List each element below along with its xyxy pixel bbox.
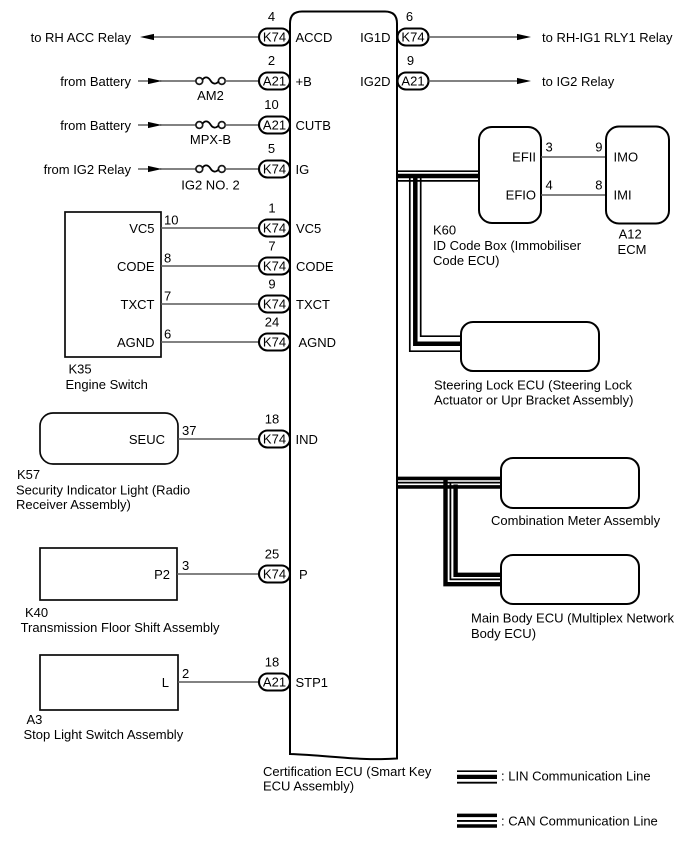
svg-text:Actuator or Upr Bracket Assemb: Actuator or Upr Bracket Assembly) <box>434 393 633 408</box>
wire fuse AM2 to Certification ECU <box>225 80 259 82</box>
label K40 Transmission Floor Shift Assembly caption <box>21 605 220 635</box>
svg-text:A21: A21 <box>263 74 286 89</box>
svg-text:ACCD: ACCD <box>296 30 333 45</box>
label STP1 <box>296 675 329 690</box>
svg-text:25: 25 <box>265 547 279 562</box>
transmission floor shift K40 box <box>40 548 177 600</box>
CAN bus branch to Main Body ECU (outer thick line) <box>446 480 502 585</box>
label K57 Security Indicator Light caption <box>16 467 190 512</box>
svg-text:CUTB: CUTB <box>296 118 331 133</box>
pin 10 (K35 VC5) <box>164 213 178 228</box>
LIN bus branch to Steering Lock ECU (thick line) <box>415 176 461 344</box>
svg-text:7: 7 <box>164 289 171 304</box>
label CAN Communication Line legend <box>501 814 658 829</box>
svg-text:ID Code Box (Immobiliser: ID Code Box (Immobiliser <box>433 238 582 253</box>
pin 8 (K35 CODE) <box>164 251 171 266</box>
svg-text:7: 7 <box>268 239 275 254</box>
svg-text:MPX-B: MPX-B <box>190 132 231 147</box>
svg-text:IG: IG <box>296 162 310 177</box>
LIN bus Certification ECU to K60 (thick line) <box>396 174 479 179</box>
svg-text:Steering Lock ECU (Steering Lo: Steering Lock ECU (Steering Lock <box>434 378 632 393</box>
svg-text:Code ECU): Code ECU) <box>433 253 499 268</box>
connector K74 pin 24 (AGND) <box>259 315 290 351</box>
svg-text:K74: K74 <box>401 30 424 45</box>
svg-text:IMO: IMO <box>614 150 639 165</box>
svg-text:AGND: AGND <box>299 335 337 350</box>
arrow from from Battery (right) <box>148 78 162 84</box>
label Steering Lock ECU caption <box>434 378 633 408</box>
wire from from Battery to fuse MPX-B <box>138 124 196 126</box>
connector K74 pin 18 (IND) <box>259 412 290 448</box>
label to RH-IG1 RLY1 Relay <box>542 30 673 45</box>
label TXCT <box>296 297 330 312</box>
CAN bus branch to Main Body ECU (inner thick line) <box>456 485 501 575</box>
svg-text:EFIO: EFIO <box>506 188 536 203</box>
svg-text:8: 8 <box>595 178 602 193</box>
connector K74 pin 4 (ACCD) <box>259 9 290 46</box>
label Combination Meter Assembly caption <box>491 513 661 528</box>
svg-text:VC5: VC5 <box>296 221 321 236</box>
combination meter assembly box <box>501 458 639 508</box>
wire K35 TXCT to Certification ECU TXCT <box>161 303 259 305</box>
label from Battery <box>60 118 131 133</box>
CAN bus branch to Main Body ECU (middle thin line) <box>450 483 501 580</box>
connector K74 pin 5 (IG) <box>259 141 290 178</box>
svg-text:18: 18 <box>265 655 279 670</box>
arrow to RH ACC Relay (left) <box>140 34 154 40</box>
label from IG2 Relay <box>44 162 132 177</box>
svg-text:K57: K57 <box>17 467 40 482</box>
pin 3 (K60 EFII) <box>546 140 553 155</box>
CAN bus Certification ECU to Combination Meter (middle thin line) <box>396 482 501 484</box>
label AGND <box>299 335 337 350</box>
wire from from Battery to fuse AM2 <box>138 80 196 82</box>
svg-text:IG2 NO. 2: IG2 NO. 2 <box>181 178 240 193</box>
label IND <box>296 432 318 447</box>
label A3 Stop Light Switch Assembly caption <box>24 712 184 742</box>
svg-text:K35: K35 <box>69 362 92 377</box>
svg-text:P2: P2 <box>154 567 170 582</box>
svg-text:CODE: CODE <box>117 259 155 274</box>
wire K35 AGND to Certification ECU AGND <box>161 341 259 343</box>
CAN bus Certification ECU to Combination Meter (top thick line) <box>396 477 501 481</box>
arrow from from IG2 Relay (right) <box>148 166 162 172</box>
connector A21 pin 9 (IG2D) <box>398 53 429 90</box>
wire fuse IG2 NO. 2 to Certification ECU <box>225 168 259 170</box>
svg-text:Combination Meter Assembly: Combination Meter Assembly <box>491 513 661 528</box>
wire K35 CODE to Certification ECU CODE <box>161 265 259 267</box>
svg-text:to RH ACC Relay: to RH ACC Relay <box>31 30 132 45</box>
label P <box>299 567 308 582</box>
connector K74 pin 1 (VC5) <box>259 201 290 237</box>
svg-text:AM2: AM2 <box>197 88 224 103</box>
svg-text:K74: K74 <box>263 259 286 274</box>
svg-text:4: 4 <box>268 9 275 24</box>
legend CAN communication line symbol <box>457 815 497 826</box>
svg-text:to RH-IG1 RLY1 Relay: to RH-IG1 RLY1 Relay <box>542 30 673 45</box>
svg-text:37: 37 <box>182 423 196 438</box>
main body ECU box <box>501 555 639 604</box>
label CODE (K35 internal) <box>117 259 155 274</box>
svg-text:K74: K74 <box>263 297 286 312</box>
label to IG2 Relay <box>542 74 615 89</box>
svg-text:K74: K74 <box>263 30 286 45</box>
svg-text:K60: K60 <box>433 223 456 238</box>
svg-text:A21: A21 <box>263 675 286 690</box>
wire fuse MPX-B to Certification ECU <box>225 124 259 126</box>
CAN bus Certification ECU to Combination Meter (bottom thick line) <box>396 485 501 489</box>
svg-text:ECU Assembly): ECU Assembly) <box>263 779 354 794</box>
fuse AM2 <box>196 77 225 103</box>
pin 3 (K40 P2) <box>182 558 189 573</box>
svg-text:2: 2 <box>182 666 189 681</box>
legend LIN communication line symbol <box>457 771 497 783</box>
svg-text:24: 24 <box>265 315 279 330</box>
label IG1D <box>360 30 390 45</box>
svg-text:EFII: EFII <box>512 150 536 165</box>
svg-text:+B: +B <box>296 74 312 89</box>
label to RH ACC Relay <box>31 30 132 45</box>
svg-text:K74: K74 <box>263 162 286 177</box>
svg-text:IG1D: IG1D <box>360 30 390 45</box>
fuse IG2 NO. 2 <box>181 165 240 192</box>
label K60 ID Code Box caption <box>433 223 582 269</box>
wire ACCD to RH ACC Relay <box>151 36 259 38</box>
label +B <box>296 74 312 89</box>
wire K60 EFIO to A12 IMI <box>541 194 606 196</box>
svg-text:3: 3 <box>546 140 553 155</box>
svg-text:Security Indicator Light (Radi: Security Indicator Light (Radio <box>16 483 190 498</box>
LIN bus Certification ECU to K60 (thin line bottom) <box>396 180 479 182</box>
LIN bus branch to Steering Lock ECU (outer thin line) <box>410 175 461 351</box>
pin 37 (K57 SEUC) <box>182 423 196 438</box>
Certification ECU box (Smart Key ECU Assembly) <box>290 12 397 760</box>
svg-text:K74: K74 <box>263 335 286 350</box>
svg-text:IG2D: IG2D <box>360 74 390 89</box>
svg-text:Engine Switch: Engine Switch <box>66 377 148 392</box>
svg-text:CODE: CODE <box>296 259 334 274</box>
ECM A12 box <box>606 127 669 224</box>
svg-text:K74: K74 <box>263 221 286 236</box>
wire A3 L to Certification ECU STP1 <box>178 681 259 683</box>
label VC5 <box>296 221 321 236</box>
connector K74 pin 25 (P) <box>259 547 290 583</box>
label K35 Engine Switch caption <box>66 362 148 393</box>
svg-text:from IG2 Relay: from IG2 Relay <box>44 162 132 177</box>
ID code box K60 <box>479 127 541 223</box>
connector K74 pin 9 (TXCT) <box>259 277 290 313</box>
svg-text:8: 8 <box>164 251 171 266</box>
svg-text:4: 4 <box>546 178 553 193</box>
svg-text:P: P <box>299 567 308 582</box>
arrow to IG2 Relay (right) <box>517 78 531 84</box>
engine switch K35 box <box>65 212 161 357</box>
svg-text:K74: K74 <box>263 567 286 582</box>
label AGND (K35 internal) <box>117 335 155 350</box>
svg-text:6: 6 <box>164 327 171 342</box>
pin 9 (A12 IMO) <box>595 140 602 155</box>
label from Battery <box>60 74 131 89</box>
pin 7 (K35 TXCT) <box>164 289 171 304</box>
svg-text:18: 18 <box>265 412 279 427</box>
svg-text:Certification ECU (Smart Key: Certification ECU (Smart Key <box>263 764 432 779</box>
svg-text:9: 9 <box>407 53 414 68</box>
svg-text:VC5: VC5 <box>129 221 154 236</box>
svg-text:2: 2 <box>268 53 275 68</box>
wire IG2D to IG2 Relay <box>429 80 519 82</box>
svg-text:from Battery: from Battery <box>60 74 131 89</box>
svg-text:TXCT: TXCT <box>121 297 155 312</box>
svg-text:6: 6 <box>406 9 413 24</box>
label CODE <box>296 259 334 274</box>
svg-text:from Battery: from Battery <box>60 118 131 133</box>
svg-text:A21: A21 <box>263 118 286 133</box>
svg-text:10: 10 <box>164 213 178 228</box>
svg-text:K40: K40 <box>25 605 48 620</box>
svg-text:9: 9 <box>595 140 602 155</box>
svg-text:TXCT: TXCT <box>296 297 330 312</box>
svg-text:3: 3 <box>182 558 189 573</box>
svg-text:to IG2 Relay: to IG2 Relay <box>542 74 615 89</box>
pin 4 (K60 EFIO) <box>546 178 553 193</box>
label EFII (K60 internal) <box>512 150 536 165</box>
pin 2 (A3 L) <box>182 666 189 681</box>
connector K74 pin 7 (CODE) <box>259 239 290 275</box>
label Certification ECU caption <box>263 764 432 794</box>
wire IG1D to RH-IG1 RLY1 Relay <box>429 36 519 38</box>
svg-text:5: 5 <box>268 141 275 156</box>
svg-text:: CAN Communication Line: : CAN Communication Line <box>501 814 658 829</box>
label IG <box>296 162 310 177</box>
wire from from IG2 Relay to fuse IG2 NO. 2 <box>138 168 196 170</box>
svg-text:Receiver Assembly): Receiver Assembly) <box>16 497 131 512</box>
connector A21 pin 2 (+B) <box>259 53 290 90</box>
label TXCT (K35 internal) <box>121 297 155 312</box>
svg-text:Transmission Floor Shift Assem: Transmission Floor Shift Assembly <box>21 620 220 635</box>
arrow from from Battery (right) <box>148 122 162 128</box>
svg-text:A3: A3 <box>27 712 43 727</box>
label IG2D <box>360 74 390 89</box>
wire K35 VC5 to Certification ECU VC5 <box>161 227 259 229</box>
svg-text:9: 9 <box>268 277 275 292</box>
svg-text:L: L <box>162 675 169 690</box>
svg-text:K74: K74 <box>263 432 286 447</box>
LIN bus branch to Steering Lock ECU (inner thin line) <box>421 177 461 336</box>
label LIN Communication Line legend <box>501 769 651 784</box>
svg-text:1: 1 <box>268 201 275 216</box>
connector A21 pin 18 (STP1) <box>259 655 290 691</box>
label Main Body ECU caption <box>471 611 675 641</box>
svg-text:: LIN Communication Line: : LIN Communication Line <box>501 769 651 784</box>
label ACCD <box>296 30 333 45</box>
svg-text:IND: IND <box>296 432 318 447</box>
wire K57 SEUC to Certification ECU IND <box>178 438 259 440</box>
label L (A3 internal) <box>162 675 169 690</box>
label A12 ECM caption <box>618 226 647 257</box>
steering lock ECU box <box>461 322 599 371</box>
svg-text:A12: A12 <box>619 226 642 241</box>
pin 6 (K35 AGND) <box>164 327 171 342</box>
label EFIO (K60 internal) <box>506 188 536 203</box>
svg-text:10: 10 <box>264 97 278 112</box>
svg-text:SEUC: SEUC <box>129 432 165 447</box>
svg-text:STP1: STP1 <box>296 675 329 690</box>
LIN bus Certification ECU to K60 (thin line top) <box>396 170 479 172</box>
label CUTB <box>296 118 331 133</box>
svg-text:Body ECU): Body ECU) <box>471 626 536 641</box>
wire K60 EFII to A12 IMO <box>541 156 606 158</box>
svg-text:AGND: AGND <box>117 335 155 350</box>
label IMO (A12 internal) <box>614 150 639 165</box>
stop light switch A3 box <box>40 655 178 710</box>
label IMI (A12 internal) <box>614 188 632 203</box>
svg-text:ECM: ECM <box>618 242 647 257</box>
label VC5 (K35 internal) <box>129 221 154 236</box>
arrow to RH-IG1 RLY1 Relay (right) <box>517 34 531 40</box>
label P2 (K40 internal) <box>154 567 170 582</box>
security indicator light K57 box <box>40 413 178 464</box>
fuse MPX-B <box>190 121 231 147</box>
svg-text:Stop Light Switch Assembly: Stop Light Switch Assembly <box>24 727 184 742</box>
label SEUC (K57 internal) <box>129 432 165 447</box>
svg-text:Main Body ECU (Multiplex Netwo: Main Body ECU (Multiplex Network <box>471 611 675 626</box>
pin 8 (A12 IMI) <box>595 178 602 193</box>
connector K74 pin 6 (IG1D) <box>398 9 429 46</box>
wire K40 P2 to Certification ECU P <box>177 573 259 575</box>
svg-text:A21: A21 <box>401 74 424 89</box>
svg-text:IMI: IMI <box>614 188 632 203</box>
connector A21 pin 10 (CUTB) <box>259 97 290 134</box>
